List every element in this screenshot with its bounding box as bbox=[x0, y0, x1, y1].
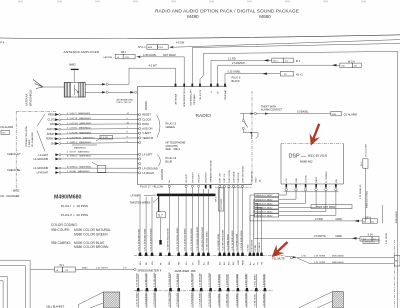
wire tel mute junction bbox=[285, 256, 297, 259]
label amplifier 996 bbox=[175, 269, 196, 273]
svg-text:CU ALARM: CU ALARM bbox=[344, 112, 357, 116]
wires amplifier lower columns bbox=[138, 274, 265, 308]
node R5 connector A/17B bbox=[103, 51, 176, 59]
svg-text:M462: M462 bbox=[69, 63, 76, 67]
labels radio plug12 signals bbox=[142, 113, 154, 140]
svg-text:0.75 BK M490: 0.75 BK M490 bbox=[200, 272, 202, 287]
svg-text:LF-LEFT: LF-LEFT bbox=[142, 152, 153, 156]
svg-text:M490: M490 bbox=[187, 14, 199, 19]
option boxes M680 NOT M662 bbox=[255, 193, 279, 217]
wire 2.5 BR to N4 bbox=[250, 215, 377, 223]
node CD alarm bbox=[0, 126, 13, 135]
svg-text:0.35 GN/BL: 0.35 GN/BL bbox=[228, 71, 242, 74]
svg-text:COLOR CODING:: COLOR CODING: bbox=[51, 223, 78, 227]
svg-text:RF-: RF- bbox=[146, 261, 148, 265]
svg-text:NOT M4A8: NOT M4A8 bbox=[163, 54, 176, 57]
svg-text:0.35 GN/PK: 0.35 GN/PK bbox=[143, 54, 157, 57]
svg-text:P 4: P 4 bbox=[0, 41, 4, 45]
svg-text:M490: M490 bbox=[336, 235, 343, 238]
svg-text:LF-LEFT: LF-LEFT bbox=[38, 154, 48, 157]
node shield box bbox=[72, 135, 113, 149]
wires amplifier upper columns bbox=[140, 188, 243, 253]
svg-text:LF-WIRE: LF-WIRE bbox=[131, 194, 142, 198]
svg-text:GND: GND bbox=[199, 260, 201, 265]
svg-text:BLUE: BLUE bbox=[166, 159, 173, 163]
svg-text:LF1 0.35 BL/RD M490: LF1 0.35 BL/RD M490 bbox=[145, 228, 147, 251]
wire twisted bundle bar bbox=[157, 194, 216, 197]
svg-text:0.35 GN/YE: 0.35 GN/YE bbox=[251, 239, 253, 251]
dsp pins and connector bbox=[284, 184, 339, 192]
svg-text:LF+: LF+ bbox=[186, 260, 188, 265]
svg-text:M680 COLOR BROWN: M680 COLOR BROWN bbox=[74, 245, 109, 249]
svg-text:D1: D1 bbox=[285, 61, 289, 63]
wires cd-changer plug12 rows bbox=[55, 112, 138, 145]
svg-text:ANTENNA AMPLIFIER: ANTENNA AMPLIFIER bbox=[64, 50, 100, 54]
svg-text:0.75 BN M490: 0.75 BN M490 bbox=[145, 292, 147, 307]
brace plug12 bbox=[157, 115, 177, 138]
svg-text:M4: M4 bbox=[395, 261, 399, 263]
svg-text:ALARM CONTACT: ALARM CONTACT bbox=[261, 108, 283, 111]
svg-text:0.35 GR/BL 90: 0.35 GR/BL 90 bbox=[360, 184, 362, 199]
svg-text:D8: D8 bbox=[354, 66, 358, 68]
svg-text:IN3: IN3 bbox=[229, 261, 231, 265]
svg-text:DATA: DATA bbox=[315, 177, 318, 183]
svg-text:1 3/4 YE MA85/M662: 1 3/4 YE MA85/M662 bbox=[67, 150, 90, 153]
svg-text:996 COUPE:: 996 COUPE: bbox=[51, 228, 70, 232]
wire heavy drop bbox=[159, 196, 162, 244]
svg-text:H: H bbox=[211, 91, 213, 93]
connector pin row lower bbox=[137, 288, 267, 291]
svg-text:ANTENNA: ANTENNA bbox=[174, 94, 177, 105]
label M652 cd-changer bbox=[0, 189, 20, 199]
wire top border bbox=[0, 35, 400, 39]
svg-text:PLUG 12: PLUG 12 bbox=[166, 122, 177, 126]
box M680 NOT M662 wide bbox=[311, 205, 352, 209]
svg-text:M680 NOT M662: M680 NOT M662 bbox=[256, 199, 274, 201]
svg-text:SH 1.1: SH 1.1 bbox=[138, 46, 146, 49]
svg-text:1.5 YE M680: 1.5 YE M680 bbox=[218, 293, 220, 306]
wire amplifier dash boundary upper bbox=[134, 255, 285, 257]
node GP4 tall box bbox=[216, 188, 224, 211]
svg-text:0.75 YE M490: 0.75 YE M490 bbox=[137, 272, 139, 287]
svg-text:AUD.ON: AUD.ON bbox=[47, 128, 57, 131]
svg-text:M480: M480 bbox=[82, 268, 88, 270]
wires check BE rows bbox=[33, 162, 138, 174]
svg-text:M680 NOT M662: M680 NOT M662 bbox=[256, 195, 274, 197]
svg-text:M680 NOT M662: M680 NOT M662 bbox=[256, 203, 274, 205]
svg-text:45 +2: 45 +2 bbox=[296, 73, 303, 77]
svg-text:4.5 SW: 4.5 SW bbox=[176, 41, 185, 44]
svg-text:TEL MUTE: TEL MUTE bbox=[272, 257, 285, 261]
svg-text:RR-: RR- bbox=[179, 261, 181, 265]
svg-text:0.35 GN/BK M490-M680: 0.35 GN/BK M490-M680 bbox=[197, 226, 199, 251]
svg-text:175: 175 bbox=[65, 270, 69, 272]
svg-text:LF2 0.35 BL/GN M490: LF2 0.35 BL/GN M490 bbox=[185, 228, 187, 251]
connector M462 pin bbox=[69, 63, 78, 83]
svg-text:95: 95 bbox=[284, 74, 287, 76]
svg-text:0.75 WH M490: 0.75 WH M490 bbox=[169, 291, 171, 306]
svg-text:W 1: W 1 bbox=[60, 264, 65, 267]
svg-text:1.5 YE M680: 1.5 YE M680 bbox=[218, 274, 220, 287]
svg-text:5.7: 5.7 bbox=[158, 214, 163, 218]
svg-text:2.5 RD/WH: 2.5 RD/WH bbox=[232, 62, 245, 65]
svg-text:0.5 RD: 0.5 RD bbox=[248, 244, 250, 251]
svg-text:M490/M680: M490/M680 bbox=[54, 195, 82, 201]
svg-text:M680 NOT M662: M680 NOT M662 bbox=[256, 215, 274, 217]
svg-text:1.5 BL M680: 1.5 BL M680 bbox=[255, 274, 257, 287]
svg-text:0.35 GN/YH: 0.35 GN/YH bbox=[96, 268, 108, 270]
wire leader lines bbox=[37, 114, 45, 152]
svg-text:S.04: S.04 bbox=[368, 233, 374, 236]
radio plug12 pin circles bbox=[138, 114, 141, 144]
svg-text:RR-RIGHT: RR-RIGHT bbox=[206, 171, 208, 182]
svg-text:RADIO AND AUDIO OPTION PACK /: RADIO AND AUDIO OPTION PACK / DIGITAL SO… bbox=[155, 9, 299, 15]
svg-text:IN TERMIN: IN TERMIN bbox=[326, 171, 328, 183]
svg-text:0.35 GR/BL: 0.35 GR/BL bbox=[386, 232, 388, 244]
radio bottom pin circles bbox=[168, 185, 243, 188]
svg-text:GND: GND bbox=[296, 178, 298, 183]
antenna amplifier block M462 bbox=[64, 83, 85, 98]
speaker door nested box bbox=[0, 260, 30, 308]
svg-text:RF+: RF+ bbox=[140, 260, 142, 265]
svg-text:MA89/M462: MA89/M462 bbox=[74, 146, 87, 149]
label alarm contact bbox=[261, 105, 283, 111]
svg-text:REM: REM bbox=[242, 260, 244, 265]
svg-text:DSP GND: DSP GND bbox=[238, 172, 240, 182]
svg-text:RF-LEFT: RF-LEFT bbox=[186, 173, 188, 183]
wire right dash boundary bbox=[393, 240, 395, 308]
svg-text:5 1-05 GN MA85/M462: 5 1-05 GN MA85/M462 bbox=[67, 122, 92, 125]
svg-text:M06: M06 bbox=[148, 47, 153, 49]
svg-text:GATEWAY-LEFT: GATEWAY-LEFT bbox=[190, 88, 193, 105]
svg-text:RADIO: RADIO bbox=[196, 113, 212, 119]
svg-text:LF-RIGHT: LF-RIGHT bbox=[37, 172, 49, 175]
wire cd-changer dash boundary bbox=[16, 112, 57, 191]
label RADIO vertical bbox=[144, 100, 148, 110]
labels radio bottom pin names bbox=[169, 159, 262, 182]
labels upper column wires bbox=[138, 226, 243, 251]
wires dsp fan to option boxes bbox=[250, 191, 336, 253]
labels lower column wires bbox=[137, 272, 266, 307]
svg-text:DATA: DATA bbox=[142, 122, 149, 126]
svg-text:DSP SWITCHED: DSP SWITCHED bbox=[242, 165, 244, 182]
svg-text:ANTENNA LEAD: ANTENNA LEAD bbox=[117, 98, 134, 101]
wires check A/T rows bbox=[33, 150, 138, 161]
svg-text:LF-GROUND: LF-GROUND bbox=[142, 166, 158, 170]
label antenna windshield bbox=[25, 90, 33, 106]
svg-text:LF2 0.35 BK/GN M490: LF2 0.35 BK/GN M490 bbox=[150, 228, 152, 251]
svg-text:WINDSHIELD: WINDSHIELD bbox=[29, 90, 33, 106]
label check A/T bbox=[7, 152, 21, 156]
svg-text:CLOCK: CLOCK bbox=[48, 119, 57, 122]
node P4 bbox=[0, 41, 4, 45]
svg-text:M680 COLOR GREEN: M680 COLOR GREEN bbox=[74, 232, 108, 236]
svg-text:0.75 BN M490: 0.75 BN M490 bbox=[145, 272, 147, 287]
svg-text:SPEEDOMETER 4: SPEEDOMETER 4 bbox=[138, 268, 162, 272]
svg-text:AUD.ON: AUD.ON bbox=[142, 127, 152, 131]
switch alarm contact bbox=[242, 114, 258, 139]
svg-text:2.5 RD/YE: 2.5 RD/YE bbox=[314, 235, 326, 238]
svg-text:CD-CHANGER: CD-CHANGER bbox=[31, 132, 34, 147]
svg-text:A+: A+ bbox=[249, 262, 252, 265]
svg-text:1 3/4 BE MA85/M662: 1 3/4 BE MA85/M662 bbox=[67, 170, 90, 173]
svg-text:10 %: 10 % bbox=[361, 161, 363, 166]
svg-text:L/TD: L/TD bbox=[302, 256, 307, 258]
svg-text:AMPLIFIER 996: AMPLIFIER 996 bbox=[175, 269, 196, 273]
svg-text:0.75 WH M490: 0.75 WH M490 bbox=[169, 272, 171, 287]
labels cd-changer signals bbox=[46, 113, 57, 145]
svg-text:2.1 RD: 2.1 RD bbox=[228, 57, 236, 60]
svg-text:TERM 30: TERM 30 bbox=[142, 136, 154, 140]
svg-text:IP 4: IP 4 bbox=[296, 59, 301, 63]
svg-text:CLOCK: CLOCK bbox=[142, 117, 151, 121]
svg-text:DATA: DATA bbox=[50, 123, 57, 126]
svg-text:0.35 WH M680-M490: 0.35 WH M680-M490 bbox=[223, 229, 225, 251]
svg-text:B.CLUSTER: B.CLUSTER bbox=[366, 144, 368, 157]
svg-text:0.5 BN M490-M680: 0.5 BN M490-M680 bbox=[207, 231, 209, 251]
svg-text:TERM BAT: TERM BAT bbox=[224, 89, 227, 101]
svg-text:M680-M490: M680-M490 bbox=[332, 262, 344, 264]
label speech blanket bbox=[46, 306, 65, 308]
brace plug13 bbox=[157, 155, 177, 167]
svg-text:0.75 BK M490: 0.75 BK M490 bbox=[200, 292, 202, 307]
svg-text:SW: SW bbox=[208, 261, 210, 265]
svg-text:RR-LEFT: RR-LEFT bbox=[199, 173, 201, 183]
svg-text:A: A bbox=[57, 269, 59, 272]
svg-text:M652: M652 bbox=[13, 189, 20, 193]
svg-text:B+: B+ bbox=[169, 179, 171, 182]
svg-text:996 CABRIO:: 996 CABRIO: bbox=[51, 241, 71, 245]
svg-text:RR+: RR+ bbox=[169, 260, 171, 265]
arrow marker red 1 bbox=[310, 124, 320, 146]
wire tel-mute run to right edge and down bbox=[200, 51, 398, 308]
svg-text:RESET: RESET bbox=[142, 113, 151, 117]
svg-text:CD - CHANGER: CD - CHANGER bbox=[0, 194, 19, 198]
svg-text:PLUG 13: PLUG 13 bbox=[166, 156, 177, 160]
svg-text:M2: M2 bbox=[342, 66, 346, 68]
svg-text:SEE M4x1: SEE M4x1 bbox=[166, 147, 181, 151]
svg-text:17B: 17B bbox=[125, 57, 129, 59]
svg-text:1.5 GN M680: 1.5 GN M680 bbox=[236, 293, 238, 307]
label lf-wire bbox=[131, 194, 158, 198]
svg-text:0.5 WH/GN M490-M680: 0.5 WH/GN M490-M680 bbox=[202, 226, 204, 250]
svg-text:B+: B+ bbox=[203, 262, 205, 265]
label check BE bbox=[7, 168, 21, 172]
svg-text:LF-RIGHT: LF-RIGHT bbox=[142, 171, 154, 175]
svg-text:SPEAKER SWITCHED: SPEAKER SWITCHED bbox=[209, 159, 212, 182]
svg-text:0.5 BN: 0.5 BN bbox=[255, 244, 257, 251]
svg-text:0.5 GN/BL M680: 0.5 GN/BL M680 bbox=[227, 234, 229, 251]
svg-text:LF-GROUND: LF-GROUND bbox=[33, 158, 48, 161]
svg-text:0.75 GN M490: 0.75 GN M490 bbox=[154, 291, 156, 306]
svg-text:+B: +B bbox=[260, 179, 262, 182]
svg-text:7 5-35 BR MA85/M462: 7 5-35 BR MA85/M462 bbox=[67, 132, 92, 135]
svg-text:0.75 GY M680: 0.75 GY M680 bbox=[209, 292, 211, 307]
svg-text:0.5 GY/RD M680: 0.5 GY/RD M680 bbox=[236, 233, 238, 250]
svg-text:1.5 BN M680: 1.5 BN M680 bbox=[227, 273, 229, 287]
svg-text:R5 1: R5 1 bbox=[121, 51, 127, 54]
svg-text:CONNECTION WIRE: CONNECTION WIRE bbox=[26, 125, 28, 147]
svg-text:4 1-05 YE MA85/M462: 4 1-05 YE MA85/M462 bbox=[67, 117, 92, 120]
label connection wire vertical bbox=[26, 125, 34, 147]
svg-text:ANTENNA: ANTENNA bbox=[25, 93, 29, 106]
node GH B1 D4 bbox=[363, 240, 379, 244]
svg-text:1.5 RD M680: 1.5 RD M680 bbox=[263, 273, 265, 287]
wire W1 to amplifier bbox=[76, 268, 137, 271]
wire amplifier dash boundary lower bbox=[134, 290, 273, 292]
svg-text:PLUG 17 YELLOW: PLUG 17 YELLOW bbox=[140, 185, 163, 189]
node 5.7 junction bbox=[157, 212, 166, 218]
svg-text:M680: M680 bbox=[259, 14, 271, 19]
svg-text:4 SHIELD MA85/M462: 4 SHIELD MA85/M462 bbox=[67, 141, 92, 144]
svg-text:0.75 BL M490: 0.75 BL M490 bbox=[177, 273, 179, 287]
svg-text:GROUND: GROUND bbox=[161, 169, 164, 180]
wire tel mute pair bbox=[297, 255, 400, 266]
svg-text:M680-662: M680-662 bbox=[300, 159, 313, 163]
svg-text:30: 30 bbox=[218, 91, 220, 94]
svg-text:PLUG II = 20 PINS: PLUG II = 20 PINS bbox=[61, 213, 88, 217]
svg-text:M490 COLOR BLUE: M490 COLOR BLUE bbox=[74, 241, 105, 245]
wire 4.5 SW run bbox=[174, 40, 400, 48]
svg-text:-B.BATT.: -B.BATT. bbox=[46, 133, 56, 136]
svg-text:1.5 WH M680: 1.5 WH M680 bbox=[245, 292, 247, 306]
wire 2.5 RD/YE to B752 bbox=[254, 215, 379, 241]
svg-text:DSP +CH: DSP +CH bbox=[220, 173, 222, 183]
svg-text:M680-M490: M680-M490 bbox=[396, 211, 398, 223]
wire amp outputs bbox=[85, 83, 108, 93]
svg-text:GP 4: GP 4 bbox=[216, 196, 218, 202]
note NF telephone bbox=[166, 141, 186, 152]
labels right edge vertical bbox=[383, 205, 399, 244]
wire radio optional dash boundary bbox=[215, 91, 252, 188]
svg-text:D8.4: D8.4 bbox=[273, 61, 278, 63]
svg-text:0.35 YE/BK: 0.35 YE/BK bbox=[314, 256, 326, 258]
label antenna amplifier bbox=[64, 50, 100, 54]
svg-text:TERM 30: TERM 30 bbox=[46, 138, 57, 141]
arrow marker red 2 bbox=[272, 242, 288, 257]
radio main unit bbox=[138, 86, 253, 184]
title bbox=[155, 9, 299, 20]
svg-text:IN4: IN4 bbox=[233, 261, 235, 265]
svg-text:0.5 BK/VI: 0.5 BK/VI bbox=[259, 242, 261, 252]
svg-text:A SHIELD MA89/M662: A SHIELD MA89/M662 bbox=[67, 155, 92, 158]
svg-text:8 WIRE: 8 WIRE bbox=[29, 139, 31, 147]
svg-text:BLACK: BLACK bbox=[232, 80, 241, 83]
labels radio top pin names bbox=[174, 86, 227, 107]
label antenna lead bbox=[117, 98, 134, 104]
svg-text:0.5 BK/YE M490-M680: 0.5 BK/YE M490-M680 bbox=[168, 227, 170, 250]
svg-text:DRIVL TED IN: DRIVL TED IN bbox=[117, 102, 132, 104]
label RADIO bbox=[196, 113, 212, 119]
svg-text:TOP/CABR.: TOP/CABR. bbox=[193, 93, 196, 105]
radio top pins bbox=[175, 84, 226, 87]
svg-text:A-: A- bbox=[253, 263, 256, 265]
svg-text:DIN: DIN bbox=[336, 179, 338, 183]
svg-text:CD ALARM: CD ALARM bbox=[0, 126, 13, 129]
svg-text:GND: GND bbox=[51, 142, 57, 145]
svg-text:4.5 WT: 4.5 WT bbox=[149, 64, 158, 68]
label speedometer 4 bbox=[138, 268, 162, 272]
svg-text:0.5 BK/BL: 0.5 BK/BL bbox=[297, 111, 309, 114]
svg-text:PLUG I = 19 PINS: PLUG I = 19 PINS bbox=[61, 204, 88, 208]
radio plug13 pin circles bbox=[138, 153, 141, 174]
speaker front left bbox=[79, 292, 120, 308]
label twisted wires bbox=[130, 198, 160, 205]
svg-text:LF-GROUND: LF-GROUND bbox=[33, 167, 48, 170]
antenna windshield symbol bbox=[33, 80, 64, 89]
connector pin row upper bbox=[138, 253, 263, 256]
svg-text:DSP CLOCK: DSP CLOCK bbox=[229, 169, 231, 182]
label ground vertical bbox=[161, 169, 164, 180]
wire antenna feed to radio bbox=[141, 57, 185, 84]
svg-text:DSP -CH: DSP -CH bbox=[224, 173, 226, 182]
node top reference ticks bbox=[18, 1, 366, 3]
svg-text:MA89 NOT M662: MA89 NOT M662 bbox=[366, 190, 369, 208]
svg-text:CANTRN: CANTRN bbox=[103, 56, 113, 59]
svg-text:DSP DATA: DSP DATA bbox=[232, 171, 235, 182]
svg-text:1.5 GN M680: 1.5 GN M680 bbox=[236, 273, 238, 287]
wire 4.5 WT antenna to radio bbox=[108, 64, 175, 94]
svg-text:TK: TK bbox=[258, 262, 260, 265]
svg-text:0.75 RD M490: 0.75 RD M490 bbox=[191, 292, 193, 307]
svg-text:RADIO: RADIO bbox=[144, 100, 148, 110]
wire alarm to CU bbox=[240, 111, 357, 117]
labels dsp drop wires bbox=[248, 239, 262, 251]
svg-text:RF-RIGHT: RF-RIGHT bbox=[192, 171, 194, 182]
svg-text:IN1: IN1 bbox=[220, 261, 222, 265]
svg-text:RECEIVER: RECEIVER bbox=[308, 154, 328, 158]
svg-text:1.5 RD M680: 1.5 RD M680 bbox=[263, 293, 265, 307]
svg-text:M680 NOT M662: M680 NOT M662 bbox=[256, 207, 274, 209]
svg-text:CHECK A/T: CHECK A/T bbox=[7, 152, 21, 156]
labels amplifier inputs bbox=[140, 260, 263, 265]
svg-text:M490: M490 bbox=[336, 218, 343, 221]
svg-text:0.35 YE/BK: 0.35 YE/BK bbox=[314, 262, 326, 264]
svg-text:0.75 GN M490: 0.75 GN M490 bbox=[154, 272, 156, 287]
svg-text:M490-M680: M490-M680 bbox=[332, 256, 344, 258]
wire 2.1 RD to IP4 bbox=[211, 57, 301, 84]
svg-text:0.35 YE M680-M490: 0.35 YE M680-M490 bbox=[232, 230, 234, 251]
svg-text:LF2 0.35 BL/BK M490: LF2 0.35 BL/BK M490 bbox=[138, 228, 140, 250]
dsp bottom pin names bbox=[286, 171, 338, 183]
svg-text:1.5 WH M680: 1.5 WH M680 bbox=[245, 273, 247, 287]
svg-text:+CH: +CH bbox=[286, 178, 288, 183]
svg-text:SPEEDOMETER B+: SPEEDOMETER B+ bbox=[184, 86, 186, 107]
svg-text:TEL MUTE: TEL MUTE bbox=[200, 89, 202, 100]
svg-text:2 1-05 VI MA85/M462: 2 1-05 VI MA85/M462 bbox=[67, 112, 91, 115]
svg-text:TM: TM bbox=[261, 262, 263, 265]
svg-text:GND: GND bbox=[256, 177, 258, 182]
svg-text:PL: PL bbox=[160, 262, 162, 265]
node SH1.1 P5G bbox=[138, 41, 185, 49]
svg-text:0.75 RD M490: 0.75 RD M490 bbox=[191, 272, 193, 287]
svg-text:D83: D83 bbox=[332, 114, 337, 116]
svg-text:1.5 BN M680: 1.5 BN M680 bbox=[227, 293, 229, 307]
svg-text:2.5 BR: 2.5 BR bbox=[315, 218, 323, 221]
svg-text:M490 COLOR NATURAL: M490 COLOR NATURAL bbox=[74, 228, 111, 232]
label plug6 black bbox=[232, 77, 242, 83]
legend M490/M680 bbox=[51, 195, 111, 250]
svg-text:P5G: P5G bbox=[159, 47, 164, 49]
wire 2.5 RD/WH to M2/D8 bbox=[218, 60, 362, 84]
svg-text:0.35 BK M680-M490: 0.35 BK M680-M490 bbox=[241, 230, 243, 251]
svg-text:M680 NOT M662: M680 NOT M662 bbox=[316, 206, 336, 209]
svg-text:V-BATT: V-BATT bbox=[142, 131, 151, 135]
svg-text:1.5 GN: 1.5 GN bbox=[101, 137, 108, 139]
svg-text:A SHIELD MA85/M662: A SHIELD MA85/M662 bbox=[67, 165, 92, 168]
wire gateway run bbox=[192, 43, 400, 84]
svg-text:0.75 GY M680: 0.75 GY M680 bbox=[209, 272, 211, 287]
